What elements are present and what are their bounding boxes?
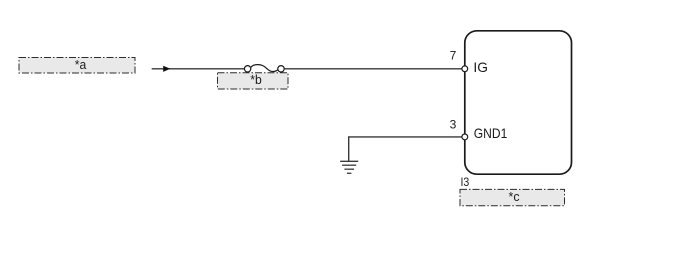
svg-text:7: 7 bbox=[450, 49, 457, 63]
label box *b bbox=[218, 72, 289, 89]
svg-text:I3: I3 bbox=[461, 175, 470, 189]
ground symbol bbox=[340, 161, 358, 173]
wire from fuse to connector pin 7 bbox=[284, 68, 463, 70]
pin 3 (GND1) bbox=[450, 118, 508, 141]
component box I3 bbox=[465, 31, 572, 174]
svg-text:*a: *a bbox=[75, 57, 87, 72]
svg-text:*c: *c bbox=[509, 189, 520, 204]
svg-text:*b: *b bbox=[250, 72, 262, 87]
pin 7 (IG) bbox=[450, 49, 488, 76]
svg-text:GND1: GND1 bbox=[474, 125, 508, 141]
arrow (current direction) bbox=[163, 66, 170, 72]
wire from *a to fuse bbox=[152, 68, 245, 70]
label box *c bbox=[460, 189, 565, 206]
svg-text:IG: IG bbox=[473, 59, 488, 75]
label box *a bbox=[19, 57, 135, 73]
fuse *b bbox=[244, 65, 284, 72]
ground wire from pin 3 bbox=[349, 137, 462, 161]
svg-text:3: 3 bbox=[450, 118, 457, 132]
